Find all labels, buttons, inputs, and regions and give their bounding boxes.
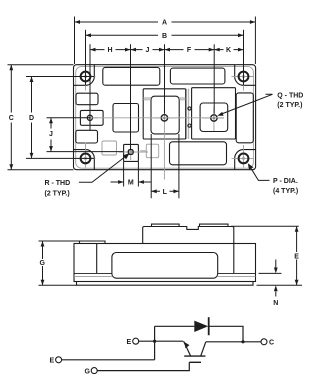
node junction E: [153, 340, 156, 343]
corner boss bottom-left: [74, 150, 95, 170]
svg-text:K: K: [226, 47, 231, 54]
center-left square pad: [113, 104, 139, 133]
terminal pad rect top-right wide: [170, 68, 225, 84]
IGBT Q1 body bar: [184, 355, 205, 357]
gap lines between center and Q blocks: [187, 89, 189, 139]
small grey rect below center-left: [102, 141, 117, 155]
dim J extension lines: [47, 118, 124, 152]
mounting hole top-right: [239, 72, 249, 82]
IGBT Q1 collector diagonal: [201, 342, 206, 356]
IGBT Q1 emitter diagonal with arrow: [184, 341, 191, 356]
label P-DIA leader: [249, 166, 269, 181]
center hole crosshair: [153, 107, 177, 180]
svg-text:J: J: [49, 131, 53, 138]
svg-text:G: G: [84, 368, 90, 375]
small rect left lower: [76, 130, 98, 143]
center block inner (L post): [151, 96, 179, 134]
small rect left upper: [76, 93, 98, 105]
svg-text:(4 TYP.): (4 TYP.): [273, 188, 298, 195]
terminal pad rect top-left wide: [103, 67, 160, 85]
right tall rect: [236, 93, 253, 143]
dim E extension lines: [231, 226, 302, 285]
tower front-face edges: [97, 244, 234, 274]
module body outline (top view): [74, 65, 256, 170]
IGBT Q1 gate bar: [189, 361, 201, 363]
left small hole crosshair: [82, 112, 98, 126]
dim N extension line top: [259, 272, 282, 274]
Q hole crosshair: [203, 107, 224, 131]
wire collector: [206, 341, 261, 343]
wire E2: [62, 359, 155, 361]
mounting hole bottom-left crosshair: [76, 145, 96, 168]
svg-text:H: H: [107, 47, 112, 54]
grey centerline through holes: [90, 117, 224, 119]
svg-text:M: M: [128, 180, 134, 187]
corner boss top-right: [235, 65, 256, 86]
mounting hole top-left: [81, 72, 91, 82]
tower plateau right: [200, 224, 229, 226]
case seam ledge line: [74, 272, 256, 274]
dim H line: [90, 49, 131, 51]
dim F line: [165, 49, 215, 51]
svg-text:N: N: [273, 300, 278, 307]
dim G line: [42, 241, 44, 285]
dim G extension lines: [39, 241, 80, 285]
svg-text:G: G: [39, 260, 45, 267]
svg-text:A: A: [162, 20, 167, 27]
R-THD square pad: [124, 144, 139, 161]
dim J vertical line: [50, 118, 52, 152]
small rect left with thd hole: [80, 110, 103, 125]
node junction C: [241, 340, 244, 343]
center block outer: [143, 89, 186, 139]
mounting hole top-right crosshair: [232, 68, 255, 91]
svg-text:Q - THD: Q - THD: [277, 92, 303, 99]
dim B extension lines (to hole centers): [86, 30, 244, 86]
dim L line: [151, 190, 179, 192]
tower plateau left: [152, 224, 180, 226]
grey square with stub: [146, 144, 158, 158]
dim D line: [31, 77, 33, 159]
clamp mark left: [143, 98, 151, 100]
schematic: E1 terminal: [133, 338, 139, 344]
dim B line: [86, 34, 244, 36]
svg-text:P - DIA.: P - DIA.: [273, 178, 298, 185]
side view top-left bump: [80, 241, 106, 244]
wire diode branch top: [155, 326, 243, 342]
corner boss bottom-right: [235, 150, 256, 170]
small circle lower between blocks: [188, 124, 191, 127]
R hole crosshair: [119, 146, 148, 160]
bottom wide rect: [170, 142, 227, 165]
side view terminal tower: [143, 227, 234, 244]
mounting hole bottom-right crosshair: [232, 145, 255, 168]
schematic: C terminal: [261, 339, 267, 345]
diode D1: [194, 321, 208, 332]
schematic: G terminal: [91, 368, 97, 374]
svg-text:L: L: [163, 189, 168, 196]
svg-text:E: E: [126, 339, 131, 346]
dim A extension lines: [75, 17, 256, 65]
center hole: [161, 115, 167, 121]
module inner lid line: [76, 66, 254, 168]
dim J line (horizontal): [131, 49, 165, 51]
mounting hole bottom-right (P): [239, 154, 249, 164]
wire E1 to emitter: [139, 340, 184, 342]
side recess rounded rect: [112, 253, 218, 279]
svg-text:R - THD: R - THD: [45, 180, 71, 187]
svg-text:J: J: [146, 47, 150, 54]
corner boss top-left: [74, 65, 95, 86]
dim M line with outside arrows: [111, 181, 152, 183]
extension R (to R hole): [130, 44, 132, 150]
Q block outer: [192, 88, 236, 139]
svg-text:B: B: [162, 33, 167, 40]
mounting hole bottom-left: [81, 154, 91, 164]
wire gate: [97, 362, 189, 370]
svg-text:D: D: [29, 115, 34, 122]
left small hole: [87, 115, 92, 120]
case seam grey line: [74, 275, 256, 277]
extension center post: [164, 44, 166, 113]
dim C line: [10, 65, 12, 170]
dim L extension lines: [151, 134, 179, 198]
svg-text:F: F: [187, 47, 192, 54]
clamp mark right: [179, 98, 186, 100]
dim C extension lines: [8, 65, 74, 170]
baseplate: [77, 282, 254, 286]
svg-text:C: C: [269, 340, 274, 347]
wire junction vertical: [154, 326, 156, 360]
dim N arrows: [275, 260, 277, 297]
svg-text:E: E: [294, 253, 299, 260]
dim A line: [75, 21, 256, 23]
dim M extension lines: [124, 161, 139, 186]
svg-text:(2 TYP.): (2 TYP.): [45, 191, 70, 198]
Q block inner: [200, 103, 228, 132]
extension Q hole: [213, 44, 215, 113]
small circle upper between blocks: [188, 107, 191, 110]
dim E line: [296, 226, 298, 285]
dim D extension lines (to hole centerlines): [26, 77, 94, 159]
mounting hole top-left crosshair: [76, 68, 96, 91]
dim K line: [214, 49, 243, 51]
Q-THD hole: [211, 115, 217, 121]
extension H (to left small hole): [89, 44, 91, 130]
label R-THD leader: [79, 155, 127, 182]
svg-text:E: E: [49, 358, 54, 365]
schematic: E2 terminal: [56, 357, 62, 363]
svg-text:C: C: [9, 115, 14, 122]
R-THD hole: [128, 150, 133, 155]
svg-text:(2 TYP.): (2 TYP.): [277, 102, 302, 109]
side view case body: [74, 244, 256, 282]
label Q-THD leader: [222, 94, 273, 114]
